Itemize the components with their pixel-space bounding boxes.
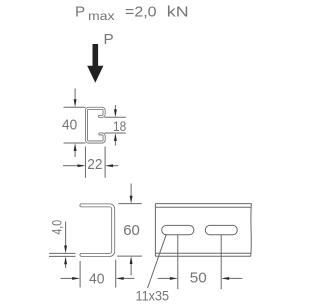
- dimension 18 (opening): [105, 105, 126, 146]
- dimension 60 (channel height): [117, 184, 142, 276]
- svg-text:40: 40: [62, 117, 77, 134]
- svg-text:40: 40: [89, 270, 105, 287]
- svg-text:P: P: [104, 31, 114, 48]
- slot 2 (11x35): [205, 225, 237, 234]
- svg-text:22: 22: [87, 156, 102, 173]
- slot 1 (11x35): [162, 225, 194, 234]
- dimension 40 (channel width): [61, 260, 135, 288]
- dimension 40 (C-profile height): [64, 89, 86, 158]
- svg-text:=2,0: =2,0: [125, 4, 157, 21]
- svg-text:50: 50: [190, 270, 207, 287]
- svg-text:60: 60: [123, 222, 140, 239]
- svg-text:11x35: 11x35: [136, 288, 170, 304]
- svg-text:P: P: [75, 4, 85, 21]
- dimension 50 (slot spacing): [158, 235, 243, 289]
- front view of rail: [155, 204, 251, 257]
- svg-text:max: max: [88, 11, 115, 23]
- svg-text:18: 18: [113, 118, 126, 134]
- label Pmax =2,0 kN: [75, 4, 189, 23]
- leader line 11x35: [148, 234, 167, 288]
- C-profile rail cross-section: [87, 108, 105, 142]
- force arrow P: [87, 44, 103, 83]
- channel profile (side cross-section 40x60): [81, 205, 113, 255]
- svg-text:kN: kN: [167, 4, 189, 21]
- dimension 22 (C-profile width): [63, 147, 118, 178]
- dimension 4,0 (sheet thickness): [49, 222, 76, 269]
- svg-text:4,0: 4,0: [49, 220, 65, 235]
